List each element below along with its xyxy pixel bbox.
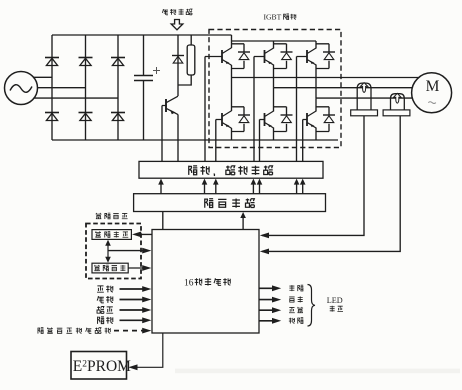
svg-text:IGBT: IGBT [264, 13, 282, 22]
svg-text:E2PROM: E2PROM [73, 358, 131, 375]
svg-text:LED: LED [327, 296, 343, 305]
svg-text:16: 16 [184, 279, 194, 289]
svg-text:M: M [426, 78, 440, 95]
